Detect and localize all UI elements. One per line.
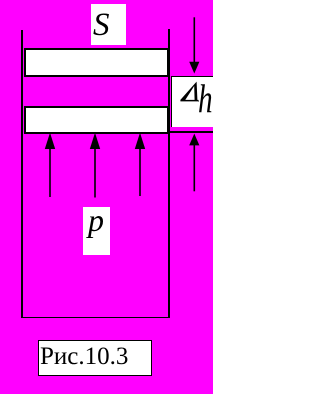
label box delta-h	[171, 77, 214, 126]
delta-h upper tick line	[171, 76, 214, 78]
piston lower position rectangle	[24, 106, 169, 134]
label delta-h glyph Delta	[174, 76, 204, 106]
caption text	[40, 340, 148, 374]
vessel left wall	[21, 30, 23, 319]
pressure arrow 2	[90, 133, 100, 198]
label p	[88, 195, 112, 245]
delta-h down arrow	[189, 17, 199, 73]
label box p	[83, 207, 110, 255]
caption box	[38, 340, 152, 376]
label delta-h glyph h	[198, 79, 213, 119]
delta-h lower tick line	[170, 131, 213, 133]
pressure arrow 3	[135, 133, 145, 196]
pressure arrow 1	[45, 133, 55, 197]
arrows svg	[0, 0, 213, 394]
label box S	[91, 4, 126, 45]
label S	[93, 3, 123, 47]
vessel bottom	[21, 317, 170, 319]
piston upper position rectangle	[24, 48, 169, 78]
delta-h up arrow	[189, 134, 199, 192]
vessel right wall	[168, 29, 170, 319]
